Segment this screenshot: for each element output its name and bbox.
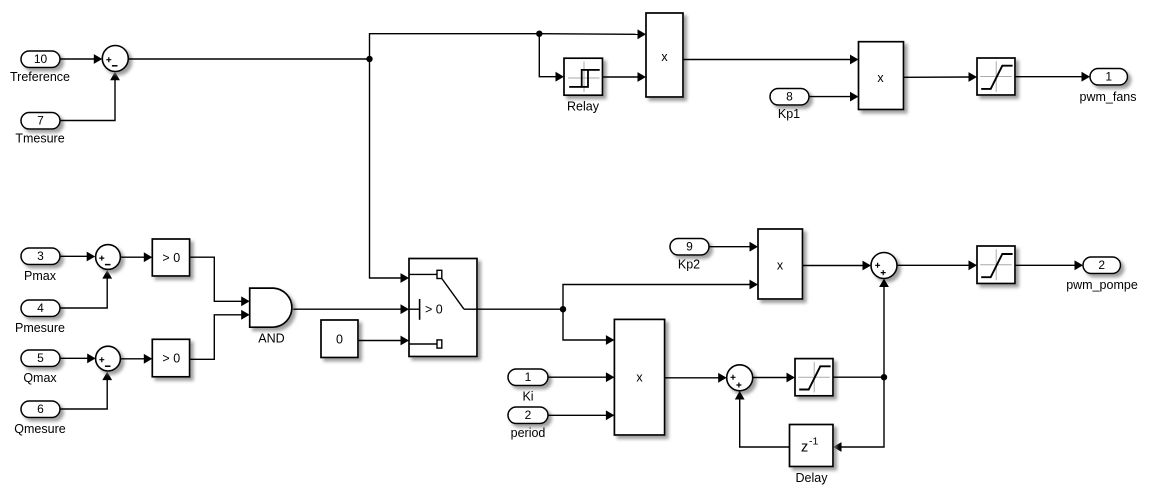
svg-text:> 0: > 0: [425, 303, 443, 317]
wire AND to switch input2: [293, 304, 409, 314]
saturation SAT2: [977, 246, 1015, 284]
sum S5: [727, 365, 753, 391]
svg-text:7: 7: [37, 113, 44, 127]
wire P10 to S1: [61, 54, 103, 64]
svg-text:x: x: [777, 259, 784, 273]
svg-text:Qmesure: Qmesure: [14, 422, 65, 436]
wire J1 down to switch input1: [370, 59, 410, 283]
svg-text:4: 4: [37, 301, 44, 315]
wire Ki to PR4 input2: [549, 372, 615, 382]
svg-text:z: z: [801, 440, 808, 456]
sum S1: [102, 46, 128, 72]
svg-text:x: x: [877, 71, 884, 85]
wire P7 to S1 bottom: [61, 72, 120, 121]
svg-text:6: 6: [37, 402, 44, 416]
svg-text:1: 1: [525, 370, 532, 384]
wire switch to junction J3: [477, 308, 563, 310]
wire P6 to S3 bottom: [61, 372, 113, 409]
svg-text:pwm_pompe: pwm_pompe: [1066, 278, 1138, 292]
wire J3 up to PR3 input2: [563, 280, 758, 310]
wire P5 to S3: [61, 354, 96, 364]
outport 2 pwm_pompe: [1066, 257, 1138, 292]
svg-text:2: 2: [1098, 258, 1105, 272]
wire S2 to G1: [121, 252, 153, 262]
sum S3: [96, 346, 121, 371]
wire J1 up to J2: [370, 34, 540, 59]
svg-text:Relay: Relay: [567, 100, 600, 114]
node J2: [536, 31, 542, 37]
wire J3 down to PR4 input1: [563, 309, 614, 345]
wire S5 to SAT3: [753, 373, 795, 383]
svg-text:Qmax: Qmax: [23, 371, 57, 385]
wire Relay to PR1 input2: [603, 72, 647, 82]
wire Delay output to S5 bottom: [735, 391, 790, 447]
inport 6 Qmesure: [14, 401, 65, 436]
wire J2 to product PR1 input1: [539, 29, 646, 39]
node J4: [881, 374, 887, 380]
wire S3 to G2: [121, 354, 153, 364]
wire PR2 to SAT1: [904, 72, 978, 82]
delay block z^-1: [790, 425, 834, 486]
svg-text:> 0: > 0: [162, 351, 180, 365]
sum S2: [96, 245, 121, 270]
svg-text:Kp2: Kp2: [678, 258, 700, 272]
svg-text:3: 3: [37, 249, 44, 263]
svg-text:-1: -1: [809, 436, 818, 448]
svg-text:Delay: Delay: [796, 471, 829, 485]
saturation SAT3: [795, 359, 833, 396]
inport 3 Pmax: [21, 248, 60, 283]
constant 0: [321, 320, 358, 358]
compare block G2 "> 0": [152, 339, 189, 377]
node J1: [366, 56, 372, 62]
product PR1: [646, 13, 683, 97]
wire period to PR4 input3: [549, 410, 615, 420]
svg-text:9: 9: [686, 239, 693, 253]
wire P3 to S2: [61, 252, 96, 262]
node J3: [560, 306, 566, 312]
outport 1 pwm_fans: [1080, 69, 1137, 105]
compare block G1 "> 0": [152, 239, 189, 276]
svg-text:0: 0: [336, 332, 343, 346]
svg-text:Pmesure: Pmesure: [15, 321, 65, 335]
inport 5 Qmax: [21, 350, 60, 385]
svg-text:Kp1: Kp1: [778, 107, 800, 121]
inport 7 Tmesure: [15, 113, 64, 146]
wire P8 to PR2 input2: [810, 92, 859, 102]
switch block: [409, 259, 477, 357]
inport 2 period: [508, 407, 548, 440]
sum S4: [871, 253, 897, 279]
svg-text:10: 10: [34, 52, 48, 66]
svg-text:pwm_fans: pwm_fans: [1080, 90, 1137, 104]
wire J2 down to Relay: [539, 34, 564, 82]
inport 10 Treference: [10, 51, 70, 84]
product PR3: [758, 229, 803, 299]
svg-text:Tmesure: Tmesure: [15, 132, 64, 146]
wire G1 to AND input1: [190, 257, 250, 306]
svg-text:5: 5: [37, 351, 44, 365]
product PR4: [614, 319, 664, 435]
svg-text:> 0: > 0: [162, 251, 180, 265]
wire J4 down to Delay input: [833, 377, 884, 452]
wire S4 to SAT2: [897, 260, 977, 270]
svg-text:8: 8: [786, 89, 793, 103]
product PR2: [859, 42, 904, 110]
wire PR1 to PR2 input1: [683, 55, 859, 65]
svg-text:Ki: Ki: [522, 390, 533, 404]
svg-text:Treference: Treference: [10, 70, 70, 84]
svg-text:2: 2: [525, 408, 532, 422]
wire constant to switch input3: [358, 336, 409, 346]
wire PR4 to S5: [665, 373, 727, 383]
inport 9 Kp2: [670, 239, 709, 272]
svg-text:Pmax: Pmax: [24, 269, 57, 283]
inport 8 Kp1: [770, 89, 809, 122]
svg-text:1: 1: [1105, 69, 1112, 83]
wire SAT1 to outport 1: [1015, 72, 1090, 82]
relay block: [564, 58, 603, 113]
wire J4 up to S4 bottom: [879, 279, 889, 378]
wire SAT3 to junction J4: [833, 376, 884, 378]
wire P4 to S2 bottom: [61, 270, 113, 308]
svg-text:period: period: [511, 426, 546, 440]
svg-text:x: x: [661, 50, 668, 64]
wire PR3 to S4: [803, 261, 872, 271]
inport 1 Ki: [508, 369, 548, 404]
wire G2 to AND input2: [190, 310, 250, 359]
AND gate: [250, 288, 292, 345]
svg-text:x: x: [636, 371, 643, 385]
saturation SAT1: [977, 58, 1015, 95]
inport 4 Pmesure: [15, 300, 65, 335]
wire S1 to junction J1: [128, 58, 369, 60]
svg-text:AND: AND: [258, 332, 284, 346]
wire P9 to PR3 input1: [710, 242, 759, 252]
wire SAT2 to outport 2: [1015, 260, 1083, 270]
